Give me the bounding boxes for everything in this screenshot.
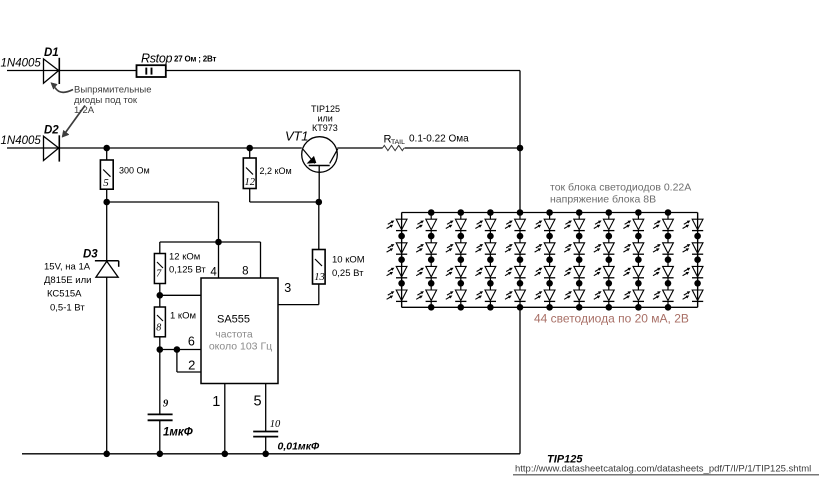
- svg-text:10: 10: [270, 419, 281, 430]
- svg-text:5: 5: [254, 394, 262, 410]
- svg-text:2: 2: [188, 358, 195, 373]
- svg-text:1: 1: [212, 394, 220, 410]
- svg-text:VT1: VT1: [285, 129, 308, 144]
- svg-text:44 светодиода по 20 мА, 2В: 44 светодиода по 20 мА, 2В: [534, 312, 689, 326]
- svg-text:9: 9: [163, 399, 169, 410]
- svg-text:8: 8: [242, 266, 248, 278]
- svg-text:TAIL: TAIL: [391, 139, 405, 146]
- svg-text:D3: D3: [83, 249, 98, 261]
- svg-text:TIP125: TIP125: [311, 104, 340, 114]
- svg-text:1N4005: 1N4005: [1, 135, 42, 147]
- svg-text:300 Ом: 300 Ом: [119, 166, 150, 176]
- svg-text:6: 6: [188, 335, 195, 349]
- svg-text:или: или: [318, 114, 333, 124]
- svg-text:12 кОм: 12 кОм: [169, 252, 200, 263]
- svg-text:12: 12: [245, 177, 256, 188]
- svg-text:1N4005: 1N4005: [1, 58, 42, 70]
- svg-text:0,25 Вт: 0,25 Вт: [332, 268, 364, 279]
- svg-text:0,01мкФ: 0,01мкФ: [278, 441, 321, 453]
- svg-text:частота: частота: [215, 329, 253, 341]
- svg-text:напряжение блока 8В: напряжение блока 8В: [550, 194, 656, 206]
- svg-text:0.1-0.22 Ома: 0.1-0.22 Ома: [409, 134, 469, 145]
- svg-text:Выпрямительные: Выпрямительные: [74, 85, 152, 96]
- svg-text:ток блока светодиодов 0.22А: ток блока светодиодов 0.22А: [550, 182, 691, 194]
- svg-text:1 кОм: 1 кОм: [170, 311, 196, 322]
- svg-text:0,125 Вт: 0,125 Вт: [169, 265, 206, 276]
- svg-text:3: 3: [284, 281, 291, 295]
- svg-text:D1: D1: [44, 47, 59, 59]
- svg-text:D2: D2: [44, 125, 59, 137]
- svg-text:10 кОМ: 10 кОМ: [332, 255, 365, 266]
- svg-text:около 103 Гц: около 103 Гц: [209, 341, 272, 353]
- svg-text:4: 4: [210, 267, 217, 279]
- svg-text:13: 13: [314, 272, 325, 283]
- svg-text:0,5-1 Вт: 0,5-1 Вт: [50, 303, 85, 314]
- svg-text:Rstop: Rstop: [141, 52, 173, 66]
- svg-text:15V, на 1А: 15V, на 1А: [44, 262, 91, 273]
- svg-text:Д815Е или: Д815Е или: [44, 275, 91, 286]
- svg-text:КТ973: КТ973: [312, 123, 338, 133]
- svg-text:2,2 кОм: 2,2 кОм: [260, 166, 292, 176]
- svg-text:1мкФ: 1мкФ: [163, 427, 193, 439]
- svg-text:http://www.datasheetcatalog.co: http://www.datasheetcatalog.com/datashee…: [515, 464, 811, 475]
- svg-text:8: 8: [156, 323, 161, 334]
- svg-text:1-2А: 1-2А: [74, 105, 95, 116]
- svg-text:5: 5: [103, 177, 109, 189]
- svg-text:27 Ом ; 2Вт: 27 Ом ; 2Вт: [174, 55, 216, 64]
- svg-text:SA555: SA555: [217, 314, 250, 326]
- svg-text:КС515А: КС515А: [47, 289, 82, 300]
